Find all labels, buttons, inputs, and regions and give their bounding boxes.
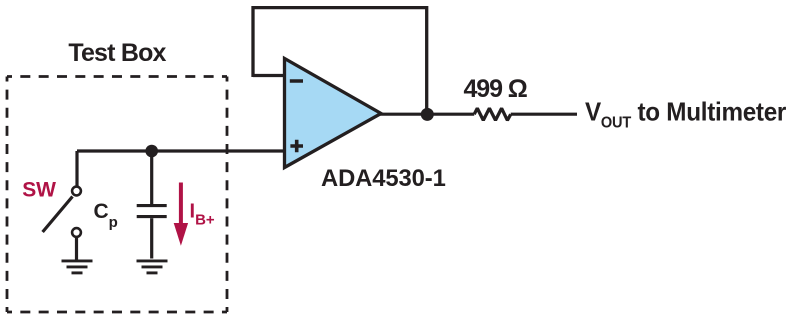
svg-text:IB+: IB+	[190, 201, 215, 229]
svg-text:ADA4530-1: ADA4530-1	[321, 165, 446, 192]
svg-text:Cp: Cp	[94, 200, 118, 231]
svg-text:SW: SW	[22, 179, 56, 202]
switch SW top contact	[72, 187, 81, 196]
switch blade	[43, 197, 73, 233]
feedback loop wire	[253, 8, 427, 110]
current arrow I_B+	[174, 183, 188, 246]
test box dashed enclosure	[7, 77, 227, 313]
op-amp minus symbol	[290, 79, 303, 83]
output node dot	[421, 108, 434, 121]
node junction dot	[145, 145, 158, 158]
switch bottom contact	[72, 228, 81, 237]
resistor R1 499ohm zigzag	[474, 108, 511, 120]
wire resistor to output label	[511, 113, 577, 116]
capacitor C_p	[137, 151, 167, 259]
ground (capacitor)	[137, 261, 168, 273]
wire output	[379, 113, 474, 116]
wire main horizontal to +input	[77, 149, 284, 152]
svg-text:499 Ω: 499 Ω	[464, 75, 528, 103]
wire switch drop	[75, 151, 78, 186]
svg-text:Test Box: Test Box	[68, 39, 166, 67]
op-amp U1 triangle	[285, 59, 382, 168]
wire switch to ground	[75, 238, 78, 260]
label Vout to Multimeter	[585, 98, 787, 131]
ground (switch)	[62, 261, 93, 273]
op-amp plus symbol	[290, 140, 303, 153]
wire -input from feedback	[253, 74, 284, 77]
svg-text:VOUT to Multimeter: VOUT to Multimeter	[585, 98, 787, 131]
